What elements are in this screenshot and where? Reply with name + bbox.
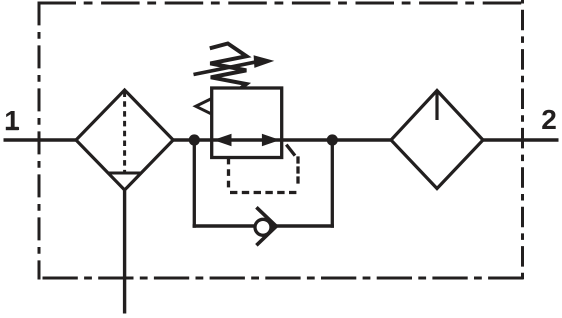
- svg-text:1: 1: [4, 105, 20, 136]
- svg-text:2: 2: [541, 104, 557, 135]
